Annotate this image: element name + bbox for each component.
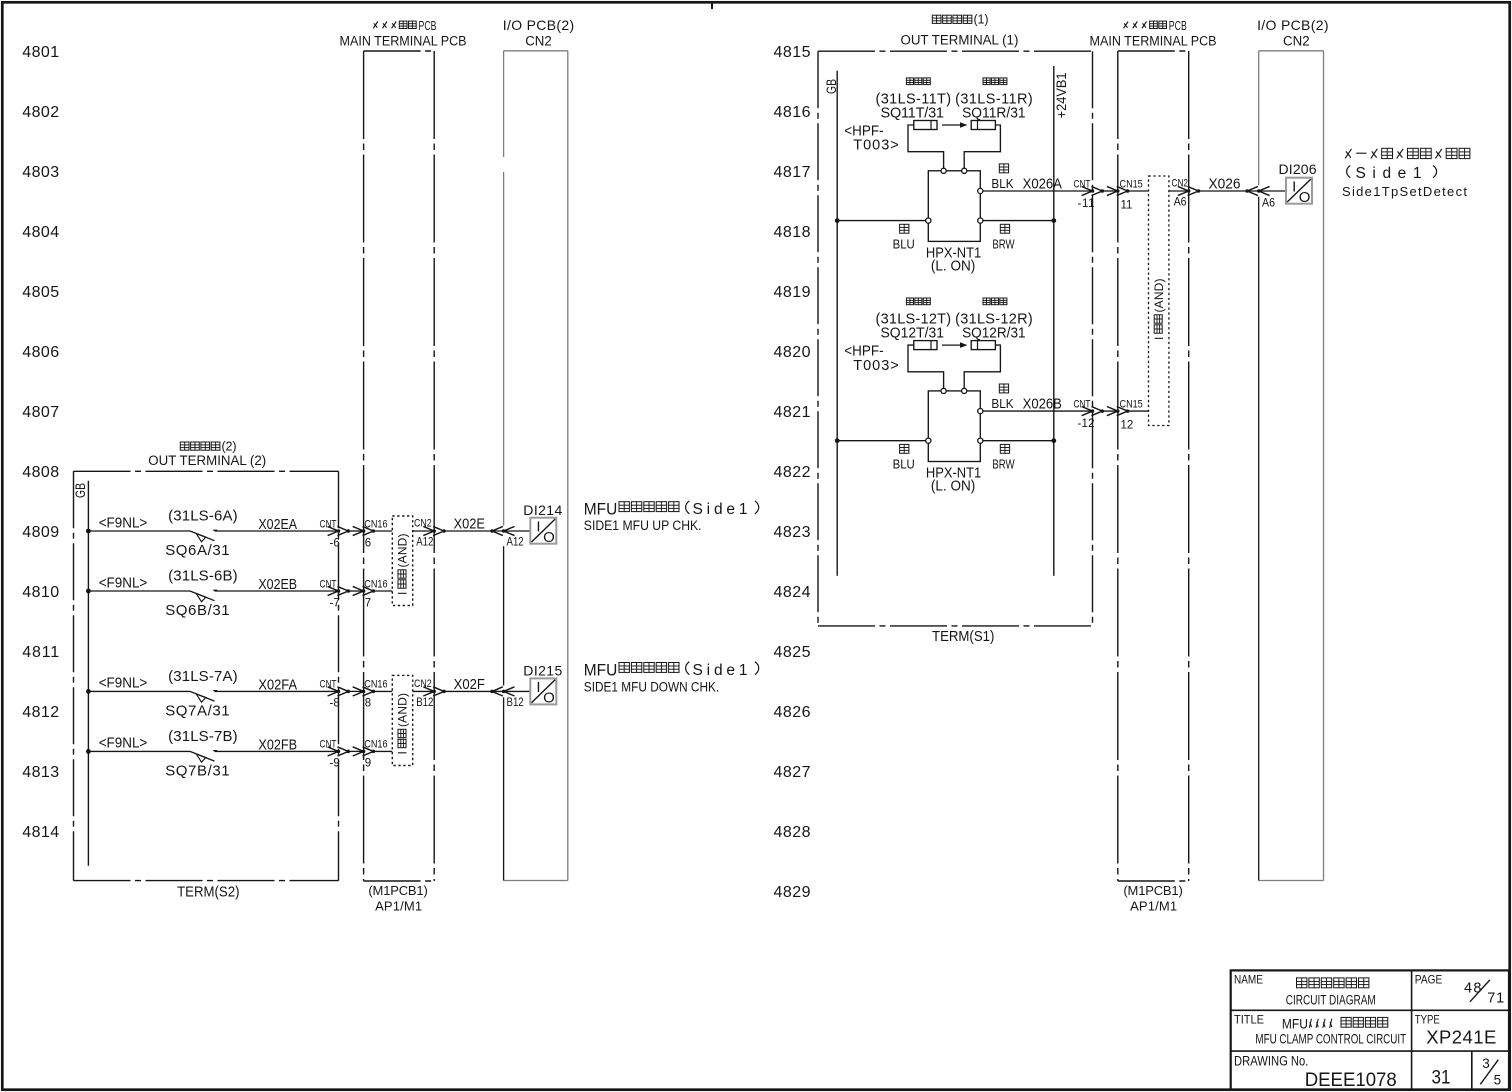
main terminal PCB boundary box (right): [1118, 51, 1189, 881]
wire receiver to amplifier 12: [964, 345, 1000, 388]
wire color label 黒 #11: [999, 164, 1008, 173]
svg-text:MFU CLAMP CONTROL CIRCUIT: MFU CLAMP CONTROL CIRCUIT: [1255, 1031, 1406, 1047]
svg-text:X02EA: X02EA: [258, 516, 297, 532]
svg-text:4817: 4817: [774, 164, 811, 181]
wire AND circuit to connector CN2 A12: [413, 530, 435, 532]
svg-text:(M1PCB1): (M1PCB1): [1123, 883, 1182, 898]
svg-text:4813: 4813: [22, 764, 59, 781]
svg-text:T003>: T003>: [853, 138, 898, 154]
amplifier mode label (L. ON) #12: [931, 477, 975, 494]
svg-text:4822: 4822: [774, 464, 811, 481]
cable label <HPF-T003> assembly 12: [844, 342, 898, 374]
svg-text:CNT: CNT: [320, 739, 337, 751]
photo transmitter SQ12T/31 symbol: [914, 341, 937, 350]
svg-text:4819: 4819: [774, 284, 811, 301]
label 投光器 (transmitter) sensor 11T: [906, 78, 913, 85]
amplifier output terminal BLK #12: [978, 409, 983, 414]
svg-text:CN16: CN16: [364, 679, 388, 691]
wire label X02E: [454, 515, 485, 532]
limit switch SQ7B/31: [190, 751, 217, 763]
wire label X02F: [454, 675, 486, 692]
svg-text:Side1: Side1: [693, 501, 748, 518]
svg-text:T003>: T003>: [853, 358, 898, 374]
svg-text:OUT TERMINAL (2): OUT TERMINAL (2): [148, 452, 266, 467]
svg-text:X02E: X02E: [454, 515, 485, 532]
svg-text:4803: 4803: [22, 164, 59, 181]
svg-text:4810: 4810: [22, 584, 59, 601]
svg-text:(1): (1): [974, 13, 989, 27]
svg-text:O: O: [1299, 189, 1311, 206]
svg-text:MFU: MFU: [1282, 1016, 1308, 1032]
svg-text:XP241E: XP241E: [1426, 1027, 1496, 1048]
wire BRW terminal to +24VB1 bus #12: [983, 440, 1054, 442]
svg-text:(31LS-6B): (31LS-6B): [168, 567, 238, 584]
fuse link label <F9NL> row SQ7B/31: [99, 735, 148, 752]
connector CN16 pin 8 chevrons: [353, 687, 375, 696]
wire CNT to CN16 row SQ6B/31: [348, 590, 363, 592]
svg-text:4825: 4825: [774, 644, 811, 661]
svg-text:4829: 4829: [774, 884, 811, 901]
connector CN16 pin 6 chevrons: [353, 526, 375, 535]
fuse link label <F9NL> row SQ6B/31: [99, 575, 148, 592]
svg-text:31: 31: [1432, 1065, 1451, 1087]
wire BRW terminal to +24VB1 bus #11: [983, 220, 1054, 222]
svg-text:X02EB: X02EB: [258, 576, 297, 592]
connector label CNT #11: [1074, 178, 1091, 190]
svg-text:SQ6B/31: SQ6B/31: [165, 602, 229, 619]
wire GB bus to switch SQ6B/31: [88, 590, 190, 592]
svg-text:BLU: BLU: [893, 457, 915, 472]
wire X02EB switch to connector CNT: [215, 590, 339, 592]
connector CN16 pin 9 chevrons: [353, 747, 375, 756]
wire label X026B: [1023, 395, 1062, 412]
svg-text:(2): (2): [222, 439, 237, 453]
svg-text:BLK: BLK: [991, 397, 1014, 412]
connector label CN2 (right): [1172, 177, 1189, 189]
title block label TITLE: [1234, 1014, 1264, 1027]
svg-text:TITLE: TITLE: [1234, 1014, 1264, 1027]
connector CN15 pin 12 chevrons: [1107, 407, 1129, 416]
main terminal PCB boundary box (left): [364, 51, 435, 881]
wire label X026A: [1023, 175, 1063, 192]
svg-text:48: 48: [1464, 980, 1482, 996]
svg-text:TERM(S2): TERM(S2): [177, 883, 239, 900]
svg-text:Side1: Side1: [693, 662, 748, 679]
sheet 3/5: [1480, 1056, 1501, 1087]
net label GB (left): [73, 483, 89, 498]
svg-text:4823: 4823: [774, 524, 811, 541]
limit switch SQ6A/31: [190, 530, 217, 542]
svg-text:SQ12T/31: SQ12T/31: [881, 325, 945, 341]
svg-text:BLK: BLK: [991, 176, 1014, 191]
connector CNT pin -8 chevrons: [328, 687, 350, 696]
wire label X026: [1209, 176, 1241, 193]
pin label A6 at I/O PCB: [1262, 197, 1275, 209]
title block label TYPE: [1415, 1014, 1440, 1027]
svg-text:B12: B12: [507, 696, 524, 709]
main terminal PCB header MAIN TERMINAL PCB (right): [1090, 33, 1217, 49]
connector CN16 pin 7 chevrons: [353, 586, 375, 595]
svg-text:(AND): (AND): [1152, 279, 1166, 313]
svg-text:4808: 4808: [22, 464, 59, 481]
sensor amplifier HPX-NT1 #11 body: [928, 171, 980, 242]
svg-text:PCB: PCB: [1169, 19, 1187, 33]
svg-text:4809: 4809: [22, 524, 59, 541]
connector I/O PCB pin A6 chevrons (right): [1245, 186, 1269, 195]
terminal block TERM(S2) header 外部中継(2): [180, 439, 236, 453]
connector label CN16 row SQ6B/31: [364, 579, 388, 591]
cable label <HPF-T003> assembly 11: [844, 122, 898, 154]
wire CN16 to AND circuit row SQ6B/31: [373, 590, 392, 592]
junction GB bus row #12: [835, 438, 840, 443]
svg-text:4805: 4805: [22, 284, 59, 301]
connector label CNT #12: [1074, 398, 1091, 410]
svg-text:(L. ON): (L. ON): [931, 477, 975, 494]
pin label A12 at CN2: [416, 536, 433, 549]
wire color label BLK #11: [991, 176, 1014, 191]
svg-text:OUT TERMINAL (1): OUT TERMINAL (1): [901, 32, 1019, 47]
wire color label 青 #12: [900, 444, 909, 453]
caption MFU上昇端確認(Side1): [584, 500, 759, 519]
bus wire +24VB1: [1053, 66, 1055, 576]
I/O PCB(2) boundary box (right): [1259, 51, 1324, 881]
svg-text:4816: 4816: [774, 104, 811, 121]
wire transmitter to amplifier 11: [908, 125, 944, 168]
svg-text:X02FB: X02FB: [258, 735, 297, 752]
svg-text:<F9NL>: <F9NL>: [99, 515, 148, 532]
bus wire GB (left): [87, 481, 89, 866]
svg-text:9: 9: [365, 758, 371, 770]
connector I/O PCB pin B12 chevrons: [490, 687, 514, 696]
connector CNT pin -6 chevrons: [328, 526, 350, 535]
amplifier terminal (receiver) #11: [962, 168, 967, 173]
svg-text:(31LS-6A): (31LS-6A): [168, 507, 238, 524]
I/O input point DI206: [1286, 178, 1312, 206]
caption SIDE1 MFU UP CHK.: [584, 517, 702, 533]
amplifier terminal BRW #11: [978, 218, 983, 223]
title block label PAGE: [1415, 974, 1442, 987]
wire CNT to CN16 row SQ6A/31: [348, 530, 363, 532]
svg-text:MFU: MFU: [584, 661, 618, 680]
svg-text:PAGE: PAGE: [1415, 974, 1442, 987]
wire color label 茶 #12: [1000, 444, 1009, 453]
svg-text:4824: 4824: [774, 584, 811, 601]
svg-text:(31LS-7A): (31LS-7A): [168, 668, 238, 685]
svg-text:BRW: BRW: [992, 458, 1014, 472]
svg-text:CN16: CN16: [364, 519, 388, 531]
svg-text:12: 12: [1121, 420, 1134, 432]
label TERM(S2): [177, 883, 239, 900]
svg-text:CN16: CN16: [364, 579, 388, 591]
connector label CNT row SQ7B/31: [320, 739, 337, 751]
AND logic circuit block I回路(AND): [392, 516, 412, 606]
svg-text:-11: -11: [1078, 198, 1095, 210]
wire X02EA switch to connector CNT: [215, 530, 339, 532]
svg-text:A6: A6: [1262, 197, 1275, 209]
sensor reference SQ11R/31: [962, 105, 1026, 121]
bus wire GB (right): [836, 71, 838, 576]
svg-text:SQ11R/31: SQ11R/31: [962, 105, 1026, 121]
wire GB bus to BLU terminal #12: [837, 440, 926, 442]
wire transmitter to amplifier 12: [908, 345, 944, 388]
amplifier terminal (receiver) #12: [962, 388, 967, 393]
connector CNT pin -11 chevrons (right): [1082, 186, 1104, 195]
caption MFU下降端確認(Side1): [584, 661, 759, 680]
svg-text:4818: 4818: [774, 224, 811, 241]
svg-text:I/O PCB(2): I/O PCB(2): [1257, 17, 1328, 33]
I/O input point DI215: [530, 678, 556, 706]
svg-text:O: O: [543, 529, 555, 546]
wire CNT to CN16 row SQ7B/31: [348, 750, 363, 752]
svg-text:(M1PCB1): (M1PCB1): [368, 883, 427, 898]
limit switch SQ6B/31: [190, 590, 217, 602]
svg-text:4821: 4821: [774, 404, 811, 421]
svg-text:(AND): (AND): [396, 693, 410, 727]
photo receiver SQ12R/31 symbol: [971, 341, 995, 350]
svg-text:4806: 4806: [22, 344, 59, 361]
svg-text:I: I: [396, 592, 410, 595]
caption （Side1）: [1347, 165, 1437, 182]
svg-text:4802: 4802: [22, 104, 59, 121]
wire label X02EA: [258, 516, 297, 532]
svg-text:SIDE1 MFU UP CHK.: SIDE1 MFU UP CHK.: [584, 517, 702, 533]
connector label CN16 row SQ7B/31: [364, 739, 388, 751]
svg-text:(31LS-7B): (31LS-7B): [168, 728, 238, 745]
junction +24VB1 bus row #11: [1051, 218, 1056, 223]
fuse link label <F9NL> row SQ7A/31: [99, 675, 148, 692]
sheet number 31: [1432, 1065, 1451, 1087]
connector label CNT row SQ7A/31: [320, 679, 337, 691]
svg-text:MFU: MFU: [584, 500, 618, 519]
connector label CN15 #11: [1120, 179, 1144, 191]
svg-text:7: 7: [365, 597, 371, 609]
wire color label 茶 #11: [1000, 224, 1009, 233]
AND logic circuit block I回路(AND) (right): [1149, 176, 1169, 426]
amplifier type label HPX-NT1 #12: [926, 465, 981, 481]
svg-text:CN15: CN15: [1120, 399, 1144, 411]
svg-text:CIRCUIT DIAGRAM: CIRCUIT DIAGRAM: [1286, 992, 1376, 1008]
pin label B12 at CN2: [416, 696, 433, 709]
junction on GB bus row SQ7B/31: [86, 749, 91, 754]
svg-text:Side1TpSetDetect: Side1TpSetDetect: [1342, 184, 1467, 199]
I/O PCB header CN2 (left): [525, 33, 552, 48]
svg-text:DI215: DI215: [523, 663, 562, 679]
title block frame: [1231, 970, 1509, 1090]
caption SIDE1 MFU DOWN CHK.: [584, 680, 719, 695]
terminal block TERM(S1) header OUT TERMINAL (1): [901, 32, 1019, 47]
svg-text:CN2: CN2: [414, 518, 432, 530]
connector CN15 pin 11 chevrons: [1107, 186, 1129, 195]
svg-text:CN2: CN2: [1283, 33, 1310, 48]
I/O PCB(2) boundary box (left): [504, 51, 568, 881]
main terminal PCB header メイン中継PCB (left): [373, 19, 436, 33]
svg-text:-8: -8: [330, 698, 340, 710]
wire label X02FA: [258, 675, 297, 692]
wire X02E CN2 to I/O PCB: [444, 530, 530, 532]
svg-text:4820: 4820: [774, 344, 811, 361]
amplifier terminal (transmitter) #11: [941, 168, 946, 173]
svg-text:4807: 4807: [22, 404, 59, 421]
wire receiver to amplifier 11: [964, 125, 1000, 168]
wire AND circuit to connector CN2 A6: [1169, 190, 1189, 192]
wire CN16 to AND circuit row SQ7B/31: [373, 750, 392, 752]
pin label A6 at CN2: [1174, 196, 1187, 208]
wire CNT to CN15 #11: [1102, 190, 1118, 192]
junction +24VB1 bus row #12: [1051, 438, 1056, 443]
svg-text:X02FA: X02FA: [258, 675, 297, 692]
connector label CN16 row SQ6A/31: [364, 519, 388, 531]
connector label CN2 row X02F: [414, 678, 432, 690]
net label GB (right): [824, 79, 840, 94]
wire GB bus to switch SQ7B/31: [88, 750, 190, 752]
svg-text:B12: B12: [416, 696, 433, 709]
svg-text:3: 3: [1482, 1056, 1490, 1071]
junction on GB bus row SQ6A/31: [86, 529, 91, 534]
svg-text:4827: 4827: [774, 764, 811, 781]
svg-text:X026A: X026A: [1023, 175, 1063, 192]
svg-text:DRAWING No.: DRAWING No.: [1234, 1053, 1308, 1068]
wire color label BLU #12: [893, 457, 915, 472]
terminal block TERM(S1) header 外部中継(1): [932, 13, 988, 27]
title block label DRAWING No.: [1234, 1053, 1308, 1068]
sensor reference SQ12R/31: [962, 324, 1026, 341]
svg-text:5: 5: [1494, 1072, 1502, 1087]
svg-text:AP1/M1: AP1/M1: [375, 898, 422, 913]
svg-text:<F9NL>: <F9NL>: [99, 735, 148, 752]
svg-text:I/O PCB(2): I/O PCB(2): [503, 17, 574, 33]
svg-text:4828: 4828: [774, 824, 811, 841]
net label +24VB1: [1054, 72, 1069, 118]
svg-text:A12: A12: [507, 536, 524, 549]
limit switch SQ7A/31: [190, 691, 217, 703]
wire label X02EB: [258, 576, 297, 592]
main terminal PCB header MAIN TERMINAL PCB (left): [340, 33, 467, 49]
svg-text:X026B: X026B: [1023, 395, 1062, 412]
amplifier mode label (L. ON) #11: [931, 257, 975, 274]
amplifier type label HPX-NT1 #11: [926, 245, 981, 261]
photo receiver SQ11R/31 symbol: [971, 121, 995, 130]
svg-text:SQ6A/31: SQ6A/31: [165, 542, 229, 559]
label TERM(S1): [932, 627, 994, 644]
amplifier terminal BRW #12: [978, 438, 983, 443]
svg-text:6: 6: [365, 537, 371, 549]
main terminal PCB header メイン中継PCB (right): [1124, 19, 1187, 33]
wire CNT to CN15 #12: [1102, 410, 1118, 412]
svg-text:I: I: [1292, 179, 1296, 196]
wire color label BLK #12: [991, 397, 1014, 412]
wire X02FA switch to connector CNT: [215, 690, 339, 692]
wire AND circuit to connector CN2 B12: [413, 690, 435, 692]
pin label B12 at I/O PCB: [507, 696, 524, 709]
wire color label 黒 #12: [999, 384, 1008, 393]
svg-text:(AND): (AND): [396, 534, 410, 568]
wire X026A amplifier to CNT: [983, 190, 1093, 192]
svg-text:GB: GB: [73, 483, 89, 498]
label 受光器 (receiver) sensor 12R: [983, 298, 990, 305]
wire GB bus to switch SQ7A/31: [88, 690, 190, 692]
wire GB bus to BLU terminal #11: [837, 220, 926, 222]
connector I/O PCB pin A12 chevrons: [490, 526, 514, 535]
svg-text:I: I: [536, 519, 540, 536]
junction GB bus row #11: [835, 218, 840, 223]
svg-text:11: 11: [1121, 199, 1133, 211]
amplifier output terminal BLK #11: [978, 188, 983, 193]
svg-text:4811: 4811: [22, 644, 59, 661]
svg-text:DI214: DI214: [523, 502, 562, 518]
page number 48/71: [1464, 980, 1504, 1007]
svg-text:-7: -7: [330, 597, 340, 609]
svg-text:4804: 4804: [22, 224, 59, 241]
svg-text:SIDE1 MFU DOWN CHK.: SIDE1 MFU DOWN CHK.: [584, 680, 719, 695]
svg-text:CN2: CN2: [525, 33, 552, 48]
label 投光器 (transmitter) sensor 12T: [906, 298, 913, 305]
I/O input point DI214: [530, 518, 556, 546]
svg-text:-6: -6: [330, 537, 340, 549]
svg-text:X026: X026: [1209, 176, 1241, 193]
amplifier terminal (transmitter) #12: [941, 388, 946, 393]
sensor amplifier HPX-NT1 #12 body: [928, 391, 980, 462]
svg-text:-12: -12: [1078, 418, 1095, 430]
wire CN15 to AND circuit #11: [1128, 190, 1149, 192]
svg-text:8: 8: [365, 698, 371, 710]
svg-text:NAME: NAME: [1234, 974, 1263, 987]
svg-text:MAIN TERMINAL PCB: MAIN TERMINAL PCB: [1090, 33, 1217, 49]
connector CN2 pin B12 chevrons: [423, 687, 445, 696]
svg-text:4812: 4812: [22, 704, 59, 721]
title block label NAME: [1234, 974, 1263, 987]
svg-text:SQ7B/31: SQ7B/31: [165, 763, 229, 780]
wire GB bus to switch SQ6A/31: [88, 530, 190, 532]
wire X026B amplifier to CNT: [983, 410, 1093, 412]
connector CNT pin -12 chevrons (right): [1082, 407, 1104, 416]
svg-text:PCB: PCB: [419, 19, 437, 33]
pin label A12 at I/O PCB: [507, 536, 524, 549]
wire X026 CN2 to I/O PCB: [1199, 190, 1287, 192]
svg-text:CNT: CNT: [320, 679, 337, 691]
connector CN2 pin A12 chevrons: [423, 526, 445, 535]
caption テープ押え浮上り検知: [1345, 149, 1351, 159]
svg-text:A12: A12: [416, 536, 433, 549]
wire color label 青 #11: [900, 224, 909, 233]
title 電気回路線図: [1297, 978, 1307, 988]
wire color label BRW #12: [992, 458, 1014, 472]
svg-text:TERM(S1): TERM(S1): [932, 627, 994, 644]
svg-text:BLU: BLU: [893, 237, 915, 252]
wire CN16 to AND circuit row SQ7A/31: [373, 690, 392, 692]
I/O PCB header CN2 (right): [1283, 33, 1310, 48]
svg-text:TYPE: TYPE: [1415, 1014, 1440, 1027]
svg-text:BRW: BRW: [992, 238, 1014, 252]
svg-text:SQ12R/31: SQ12R/31: [962, 324, 1026, 341]
connector label CNT row SQ6A/31: [320, 518, 337, 530]
terminal block TERM(S2) boundary box: [74, 471, 339, 880]
svg-text:I: I: [1152, 337, 1166, 340]
svg-text:MAIN TERMINAL PCB: MAIN TERMINAL PCB: [340, 33, 467, 49]
svg-text:DEEE1078: DEEE1078: [1305, 1070, 1397, 1091]
wire color label BRW #11: [992, 238, 1014, 252]
svg-text:4826: 4826: [774, 704, 811, 721]
label 受光器 (receiver) sensor 11R: [983, 78, 990, 85]
svg-text:I: I: [536, 679, 540, 696]
junction on GB bus row SQ6B/31: [86, 589, 91, 594]
svg-text:+24VB1: +24VB1: [1054, 72, 1069, 118]
junction on GB bus row SQ7A/31: [86, 689, 91, 694]
wire label X02FB: [258, 735, 297, 752]
svg-text:CNT: CNT: [1074, 178, 1091, 190]
title MFU CLAMP CONTROL CIRCUIT: [1255, 1031, 1406, 1047]
svg-text:71: 71: [1487, 991, 1504, 1007]
svg-text:I: I: [396, 751, 410, 754]
